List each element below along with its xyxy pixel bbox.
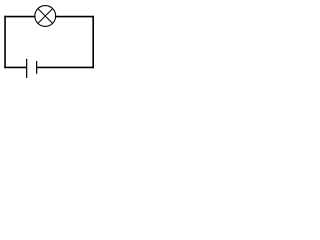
lamp L1 circle <box>35 6 56 27</box>
wire top-right segment <box>56 16 94 18</box>
wire bottom-left segment <box>4 66 26 68</box>
wire right side <box>92 16 94 68</box>
wire bottom-right segment <box>37 66 94 68</box>
lamp L1 cross stroke 1 <box>38 8 53 23</box>
wire left side <box>4 16 6 68</box>
battery B1 short plate (negative) <box>36 61 38 74</box>
battery B1 long plate (positive) <box>26 59 28 78</box>
wire top-left segment <box>4 16 35 18</box>
lamp L1 cross stroke 2 <box>38 8 53 23</box>
